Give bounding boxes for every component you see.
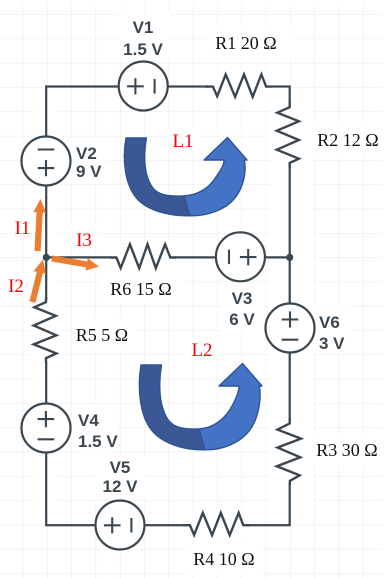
resistor R4: [183, 509, 250, 541]
svg-text:V4: V4: [78, 411, 99, 430]
loop arrow L2 (dark back arm): [139, 365, 205, 450]
svg-text:R6 15 Ω: R6 15 Ω: [110, 279, 171, 299]
voltage source V4: [22, 404, 71, 453]
svg-text:V5: V5: [110, 458, 131, 477]
resistor R6: [110, 241, 176, 273]
node junction right (node B): [286, 254, 293, 261]
svg-text:V6: V6: [319, 313, 340, 332]
current arrow I1: [33, 199, 46, 251]
loop arrow L1 (dark back arm): [124, 138, 190, 216]
svg-text:I1: I1: [15, 218, 31, 239]
svg-text:I2: I2: [8, 276, 24, 297]
node junction left (node A): [43, 254, 50, 261]
svg-text:L1: L1: [172, 131, 193, 152]
current arrow I2: [30, 260, 47, 303]
wire middle branch through R6 and V3: [46, 256, 290, 258]
loop arrow L1 (front arm with head): [184, 138, 247, 216]
resistor R2: [274, 101, 306, 168]
loop arrow L2 (front arm with head): [199, 364, 262, 450]
svg-text:3 V: 3 V: [319, 334, 345, 353]
svg-text:V2: V2: [76, 144, 97, 163]
svg-text:9 V: 9 V: [76, 162, 102, 181]
voltage source V6: [266, 304, 315, 353]
svg-text:R5 5 Ω: R5 5 Ω: [76, 325, 128, 345]
voltage source V5: [96, 501, 145, 550]
voltage source V3: [216, 232, 265, 281]
wire outer loop: top, left, bottom, right sides: [46, 87, 290, 526]
svg-text:1.5 V: 1.5 V: [123, 40, 163, 59]
svg-text:I3: I3: [76, 230, 92, 251]
resistor R1: [205, 70, 272, 102]
voltage source V1: [119, 62, 168, 111]
svg-text:V1: V1: [133, 18, 154, 37]
svg-text:R4 10 Ω: R4 10 Ω: [193, 549, 254, 569]
voltage source V2: [22, 137, 71, 186]
resistor R3: [274, 418, 306, 486]
svg-text:V3: V3: [232, 289, 253, 308]
svg-text:R2 12 Ω: R2 12 Ω: [317, 130, 378, 150]
resistor R5: [30, 297, 62, 363]
svg-text:12 V: 12 V: [103, 477, 139, 496]
svg-text:L2: L2: [191, 340, 212, 361]
svg-text:R1 20 Ω: R1 20 Ω: [215, 33, 276, 53]
svg-text:1.5 V: 1.5 V: [78, 432, 118, 451]
svg-text:6 V: 6 V: [229, 310, 255, 329]
svg-text:R3 30 Ω: R3 30 Ω: [316, 440, 377, 460]
current arrow I3: [52, 256, 100, 271]
